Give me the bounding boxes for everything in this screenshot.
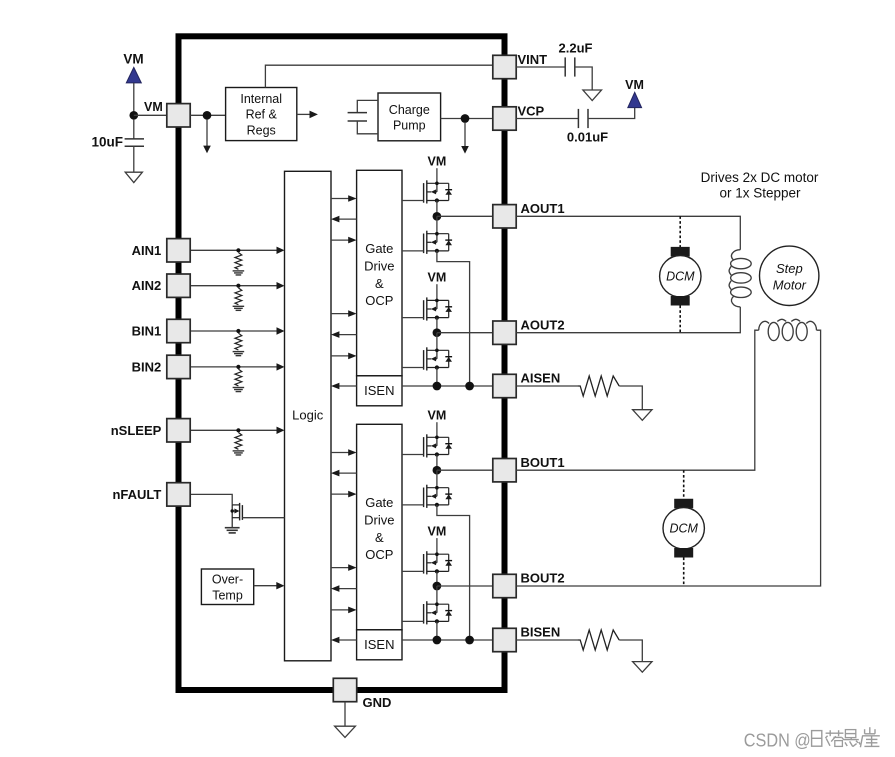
wire VM pin to Internal Ref — [190, 114, 225, 116]
wire Q6 gate — [402, 504, 424, 506]
ground (GND pin) — [335, 726, 356, 737]
wire R-AISEN to ground — [619, 386, 642, 410]
wire Q8 gate — [402, 620, 424, 622]
wire ISEN-B to BISEN pin — [402, 639, 493, 641]
wire BOUT1 node to Q6 drain — [436, 470, 438, 488]
wire VINT to cap — [516, 66, 565, 68]
resistor pulldown BIN2 — [233, 365, 245, 392]
svg-text:&: & — [375, 276, 384, 291]
wire Q4 source to AISEN node — [436, 368, 438, 387]
wire AOUT2 node to Q4 drain — [436, 333, 438, 351]
wire Q1 gate — [402, 200, 424, 202]
resistor pulldown AIN2 — [233, 284, 245, 311]
node BOUT1 (dot) — [433, 466, 442, 475]
pin BOUT2 — [493, 574, 516, 597]
pin label AOUT1 — [521, 201, 565, 216]
pin AIN2 — [167, 274, 190, 297]
pin label BOUT1 — [521, 455, 565, 470]
arrow Logic to GateDriveA y198 — [331, 195, 357, 202]
arrow Over-Temp to Logic — [254, 582, 285, 589]
arrow VCP to gate supplies (down) — [461, 123, 469, 154]
pin label VCP — [518, 104, 545, 119]
wire Q6 source bypass to BISEN node — [437, 505, 470, 640]
svg-text:Step: Step — [776, 261, 803, 276]
wire Q2 source bypass to AISEN node — [437, 251, 470, 386]
block Over-Temp — [201, 569, 253, 605]
svg-text:or 1x Stepper: or 1x Stepper — [719, 186, 801, 201]
pin VCP — [493, 107, 516, 130]
svg-text:&: & — [375, 530, 384, 545]
wire Q8 source to BISEN node — [436, 621, 438, 640]
svg-text:VM: VM — [123, 52, 143, 67]
wire 0.01uF to VM — [588, 108, 635, 119]
node BISEN junction 2 (dot) — [465, 636, 474, 645]
wire VM arrow to node — [133, 83, 135, 115]
wire Q7 gate — [402, 570, 424, 572]
arrow ISEN-B to Logic — [331, 637, 357, 644]
wire Internal Ref to VINT pin — [265, 65, 494, 87]
transistor Q2 (A low-side 1) — [424, 231, 453, 254]
svg-text:0.01uF: 0.01uF — [567, 130, 608, 145]
motor DCM-B body — [663, 508, 704, 549]
wire AOUT1 node to Q2 drain — [436, 216, 438, 233]
transistor Q1 (A high-side 1) — [424, 180, 453, 203]
svg-text:BOUT1: BOUT1 — [521, 455, 565, 470]
wire Charge Pump to VCP pin — [441, 118, 493, 120]
ground (10uF) — [125, 172, 142, 182]
wire Q5 source to BOUT1 node — [436, 455, 438, 471]
pin nSLEEP — [167, 419, 190, 442]
capacitor C-VCP 0.01uF — [567, 109, 608, 145]
block Gate Drive & OCP (B) — [357, 424, 402, 630]
svg-text:Motor: Motor — [773, 277, 807, 292]
pin AOUT1 — [493, 205, 516, 228]
wire AOUT1 node to pin — [437, 215, 493, 217]
block ISEN (A) — [357, 376, 402, 406]
wire BOUT1 to loop (left riser) — [516, 330, 759, 470]
svg-text:Drives 2x DC motor: Drives 2x DC motor — [701, 170, 819, 185]
wire BOUT1 node to pin — [437, 469, 493, 471]
caption Drives 2x DC motor or 1x Stepper — [701, 170, 819, 201]
transistor Q6 (B low-side 1) — [424, 485, 453, 508]
wire Q4 gate — [402, 367, 424, 369]
wire ISEN-A to AISEN pin — [402, 385, 493, 387]
transistor Q4 (A low-side 2) — [424, 347, 453, 370]
IC boundary (thick device outline) — [179, 36, 505, 690]
svg-text:AOUT2: AOUT2 — [521, 317, 565, 332]
arrow Logic to GateDriveB y494 — [331, 491, 357, 498]
svg-text:Drive: Drive — [364, 513, 394, 528]
svg-text:10uF: 10uF — [91, 134, 123, 149]
resistor pulldown nSLEEP — [233, 428, 245, 455]
pin nFAULT — [167, 483, 190, 506]
arrow Logic to GateDriveA y355 — [331, 353, 357, 360]
wire AOUT2 to step/DC loop — [516, 307, 740, 333]
VM supply arrow (top-left) — [123, 52, 143, 83]
pin label AIN1 — [132, 243, 162, 258]
wire AOUT2 node to pin — [437, 332, 493, 334]
svg-text:Charge: Charge — [389, 103, 430, 117]
svg-text:AIN1: AIN1 — [132, 243, 162, 258]
svg-text:VM: VM — [144, 100, 163, 114]
pin label BIN2 — [132, 359, 162, 374]
pin VM — [167, 104, 190, 127]
pin label AOUT2 — [521, 317, 565, 332]
wire AOUT1 to step/DC loop — [516, 216, 740, 249]
wire DCM-A shaft (dashed bottom) — [679, 306, 681, 333]
pin label BIN1 — [132, 324, 162, 339]
motor DCM-A body — [660, 256, 701, 297]
svg-text:Internal: Internal — [240, 92, 282, 106]
node AOUT2 (dot) — [433, 328, 442, 337]
wire DCM-B shaft (dashed top) — [683, 470, 685, 499]
transistor Q7 (B high-side 2) — [424, 551, 453, 574]
arrow GateDriveA to Logic y334 — [331, 331, 357, 338]
ground (nFAULT FET source) — [225, 528, 240, 533]
wire Q2 gate — [402, 250, 424, 252]
block ISEN (B) — [357, 630, 402, 660]
ground (2.2uF) — [583, 90, 602, 101]
transistor Q3 (A high-side 2) — [424, 297, 453, 320]
capacitor C-VINT 2.2uF — [559, 40, 593, 76]
pin GND — [333, 678, 356, 701]
wire Q3 gate — [402, 317, 424, 319]
block Logic — [285, 171, 332, 661]
node VCP internal (dot) — [461, 114, 470, 123]
pin label VINT — [518, 52, 548, 67]
svg-text:ISEN: ISEN — [364, 637, 394, 652]
wire AIN1 to Logic — [190, 247, 284, 254]
wire nFAULT FET gate to Logic — [242, 517, 284, 519]
svg-text:2.2uF: 2.2uF — [559, 40, 593, 55]
wire Q3 source to AOUT2 node — [436, 318, 438, 333]
wire BOUT2 node to pin — [437, 585, 493, 587]
wire BOUT2 to loop (right riser) — [516, 330, 820, 586]
wire 10uF to ground — [133, 146, 135, 172]
svg-text:AOUT1: AOUT1 — [521, 201, 565, 216]
motor DCM-A brush bottom — [671, 296, 690, 306]
net VM (above Q7) — [428, 524, 447, 554]
svg-text:OCP: OCP — [365, 293, 393, 308]
watermark CSDN @sunset-cliff — [744, 727, 880, 750]
wire nSLEEP to Logic — [190, 427, 284, 434]
block Internal Ref & Regs U-REF — [226, 88, 297, 141]
pin AOUT2 — [493, 321, 516, 344]
pin label AISEN — [521, 371, 561, 386]
arrow GateDriveB to Logic y588 — [331, 585, 357, 592]
wire nFAULT to open-drain FET — [190, 494, 232, 505]
wire DCM-A shaft (dashed top) — [679, 216, 681, 247]
svg-text:OCP: OCP — [365, 547, 393, 562]
wire R-BISEN to ground — [619, 640, 642, 662]
svg-text:VM: VM — [428, 524, 447, 538]
svg-text:VM: VM — [625, 78, 644, 92]
motor DCM-B brush top — [674, 499, 693, 509]
pin BOUT1 — [493, 459, 516, 482]
pin label nSLEEP — [111, 423, 162, 438]
wire VM node to VM pin — [134, 114, 167, 116]
svg-text:DCM: DCM — [669, 522, 698, 536]
svg-text:VCP: VCP — [518, 104, 545, 119]
svg-text:BISEN: BISEN — [521, 625, 561, 640]
pin label BISEN — [521, 625, 561, 640]
net label VM at pin — [144, 100, 163, 114]
svg-text:VM: VM — [428, 270, 447, 284]
svg-text:Drive: Drive — [364, 259, 394, 274]
svg-text:Gate: Gate — [365, 241, 393, 256]
svg-text:VINT: VINT — [518, 52, 548, 67]
pin AISEN — [493, 374, 516, 397]
svg-text:Regs: Regs — [247, 123, 276, 137]
arrow Logic to GateDriveB y452 — [331, 449, 357, 456]
pin BIN2 — [167, 355, 190, 378]
block Gate Drive & OCP (A) — [357, 170, 402, 375]
svg-text:nFAULT: nFAULT — [112, 487, 161, 502]
svg-text:AIN2: AIN2 — [132, 278, 162, 293]
transistor Q5 (B high-side 1) — [424, 434, 453, 457]
motor DCM-B brush bottom — [674, 548, 693, 558]
ground (AISEN) — [633, 410, 652, 421]
node AISEN junction 2 (dot) — [465, 382, 474, 391]
arrow Logic to GateDriveA y240 — [331, 237, 357, 244]
resistor R-AISEN — [577, 376, 619, 396]
svg-text:Pump: Pump — [393, 118, 426, 132]
svg-text:Logic: Logic — [292, 408, 324, 423]
net VM (above Q5) — [428, 408, 447, 437]
net VM (above Q1) — [428, 154, 447, 183]
arrow GateDriveB to Logic y473 — [331, 470, 357, 477]
capacitor charge-pump flying cap — [348, 100, 378, 133]
wire BIN1 to Logic — [190, 327, 284, 334]
arrow ISEN-A to Logic — [331, 383, 357, 390]
node BISEN junction 1 (dot) — [433, 636, 442, 645]
svg-text:VM: VM — [428, 154, 447, 168]
svg-text:VM: VM — [428, 408, 447, 422]
pin label nFAULT — [112, 487, 161, 502]
wire BIN2 to Logic — [190, 363, 284, 370]
VM supply arrow (VCP cap) — [625, 78, 644, 107]
svg-text:Over-: Over- — [212, 572, 243, 586]
wire Q7 source to BOUT2 node — [436, 571, 438, 586]
svg-text:Gate: Gate — [365, 495, 393, 510]
pin label AIN2 — [132, 278, 162, 293]
arrow Logic to GateDriveB y609 — [331, 607, 357, 614]
wire AISEN pin to resistor — [516, 385, 577, 387]
node AISEN junction 1 (dot) — [433, 382, 442, 391]
pin label BOUT2 — [521, 571, 565, 586]
resistor R-BISEN — [577, 630, 619, 650]
pin BISEN — [493, 628, 516, 651]
svg-text:BOUT2: BOUT2 — [521, 571, 565, 586]
ground (BISEN) — [633, 662, 652, 673]
wire GND pin to ground — [344, 702, 346, 727]
inductor step-motor winding A — [729, 250, 751, 307]
wire BOUT2 node to Q8 drain — [436, 586, 438, 604]
svg-text:Ref &: Ref & — [246, 108, 278, 122]
wire Q1 source to AOUT1 node — [436, 201, 438, 217]
arrow Internal Ref output (to internal rails) — [297, 111, 318, 119]
transistor Q8 (B low-side 2) — [424, 601, 453, 624]
resistor pulldown AIN1 — [233, 248, 245, 275]
motor Step Motor body — [760, 246, 819, 305]
svg-text:nSLEEP: nSLEEP — [111, 423, 162, 438]
transistor open-drain nFAULT FET — [231, 503, 243, 528]
capacitor 10uF — [91, 119, 144, 149]
node BOUT2 (dot) — [433, 582, 442, 591]
svg-text:ISEN: ISEN — [364, 383, 394, 398]
svg-text:DCM: DCM — [666, 270, 695, 284]
motor DCM-A brush top — [671, 247, 690, 257]
pin AIN1 — [167, 239, 190, 262]
pin BIN1 — [167, 319, 190, 342]
node VM internal (dot) — [203, 111, 212, 120]
block Charge Pump — [378, 93, 441, 141]
node VM (junction dot) — [129, 111, 138, 120]
wire DCM-B shaft (dashed bottom) — [683, 558, 685, 587]
wire 2.2uF to ground — [575, 67, 592, 90]
arrow Logic to GateDriveA y313 — [331, 310, 357, 317]
svg-text:BIN2: BIN2 — [132, 359, 162, 374]
wire AIN2 to Logic — [190, 282, 284, 289]
svg-text:CSDN @: CSDN @ — [744, 729, 811, 750]
pin label GND — [363, 695, 392, 710]
node AOUT1 (dot) — [433, 212, 442, 221]
wire BISEN pin to resistor — [516, 639, 577, 641]
inductor step-motor winding B — [759, 319, 817, 340]
svg-text:Temp: Temp — [212, 588, 243, 602]
wire Q5 gate — [402, 454, 424, 456]
svg-text:GND: GND — [363, 695, 392, 710]
wire VCP to cap — [516, 118, 578, 120]
net VM (above Q3) — [428, 270, 447, 300]
svg-text:BIN1: BIN1 — [132, 324, 162, 339]
arrow GateDriveA to Logic y219 — [331, 216, 357, 223]
pin VINT — [493, 55, 516, 78]
arrow Logic to GateDriveB y567 — [331, 564, 357, 571]
resistor pulldown BIN1 — [233, 329, 245, 356]
svg-text:AISEN: AISEN — [521, 371, 561, 386]
arrow VM to internal circuits (down) — [203, 120, 211, 154]
